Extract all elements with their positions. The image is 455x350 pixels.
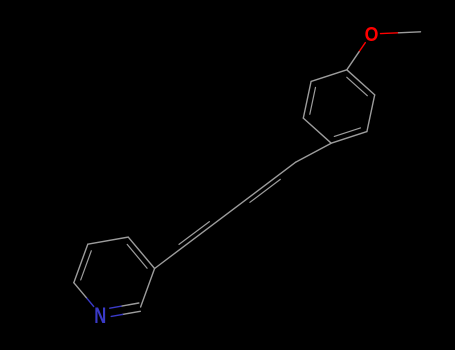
pyridine edge C4-C5 [88, 237, 128, 244]
pyridine edge C2-C3 [141, 269, 155, 308]
benzene edge V1-V2 [347, 70, 375, 95]
blue bond halves at the N atom [87, 298, 123, 316]
benzene edge V2-V3 [367, 95, 375, 132]
benzene edge V4-V5 [303, 118, 331, 143]
O-ring bond red half (from O label) [359, 43, 365, 52]
N1=C2 upper line blue half [110, 306, 121, 308]
benzene ring (top right) [303, 70, 374, 143]
N1-C6 bond blue half [87, 298, 94, 306]
O-CH3 bond red half [381, 32, 399, 35]
benzene edge V6-V1 [311, 70, 347, 82]
chain double-bond dash 1 (upper side) [179, 222, 209, 245]
pyridine ring (bottom left) [74, 237, 155, 314]
O-ring bond gray half (to benzene V1) [347, 52, 359, 70]
chain last bond K to benzene V4 [296, 143, 331, 162]
pyridine edge C5-C6 [74, 244, 88, 283]
pyridine inner double-bond line C3=C4 [127, 244, 147, 268]
butadienyl chain from pyridine C3 to benzene V4 [155, 143, 332, 268]
pyridine edge C3-C4 [128, 237, 154, 268]
N1=C2 upper line gray half [121, 303, 139, 306]
N1-C6 bond gray half [74, 283, 87, 299]
svg-text:N: N [94, 303, 106, 328]
methoxy group CH3-O [347, 32, 421, 70]
chain double-bond dash 2 (lower side) [250, 179, 280, 202]
chain main line C3 to kink K [155, 162, 296, 268]
N1=C2 lower line blue half [111, 314, 122, 316]
svg-text:O: O [365, 23, 379, 46]
benzene edge V3-V4 [331, 132, 367, 144]
N1=C2 lower line gray half [123, 311, 141, 314]
O-CH3 bond gray half [399, 32, 421, 33]
benzene inner double-bond line V3=V4 [334, 128, 360, 136]
benzene edge V5-V6 [303, 81, 311, 118]
benzene inner double-bond line V5=V6 [310, 87, 316, 114]
benzene inner double-bond line V1=V2 [347, 77, 368, 95]
pyridine inner double-bond line C5=C6 [81, 251, 92, 280]
